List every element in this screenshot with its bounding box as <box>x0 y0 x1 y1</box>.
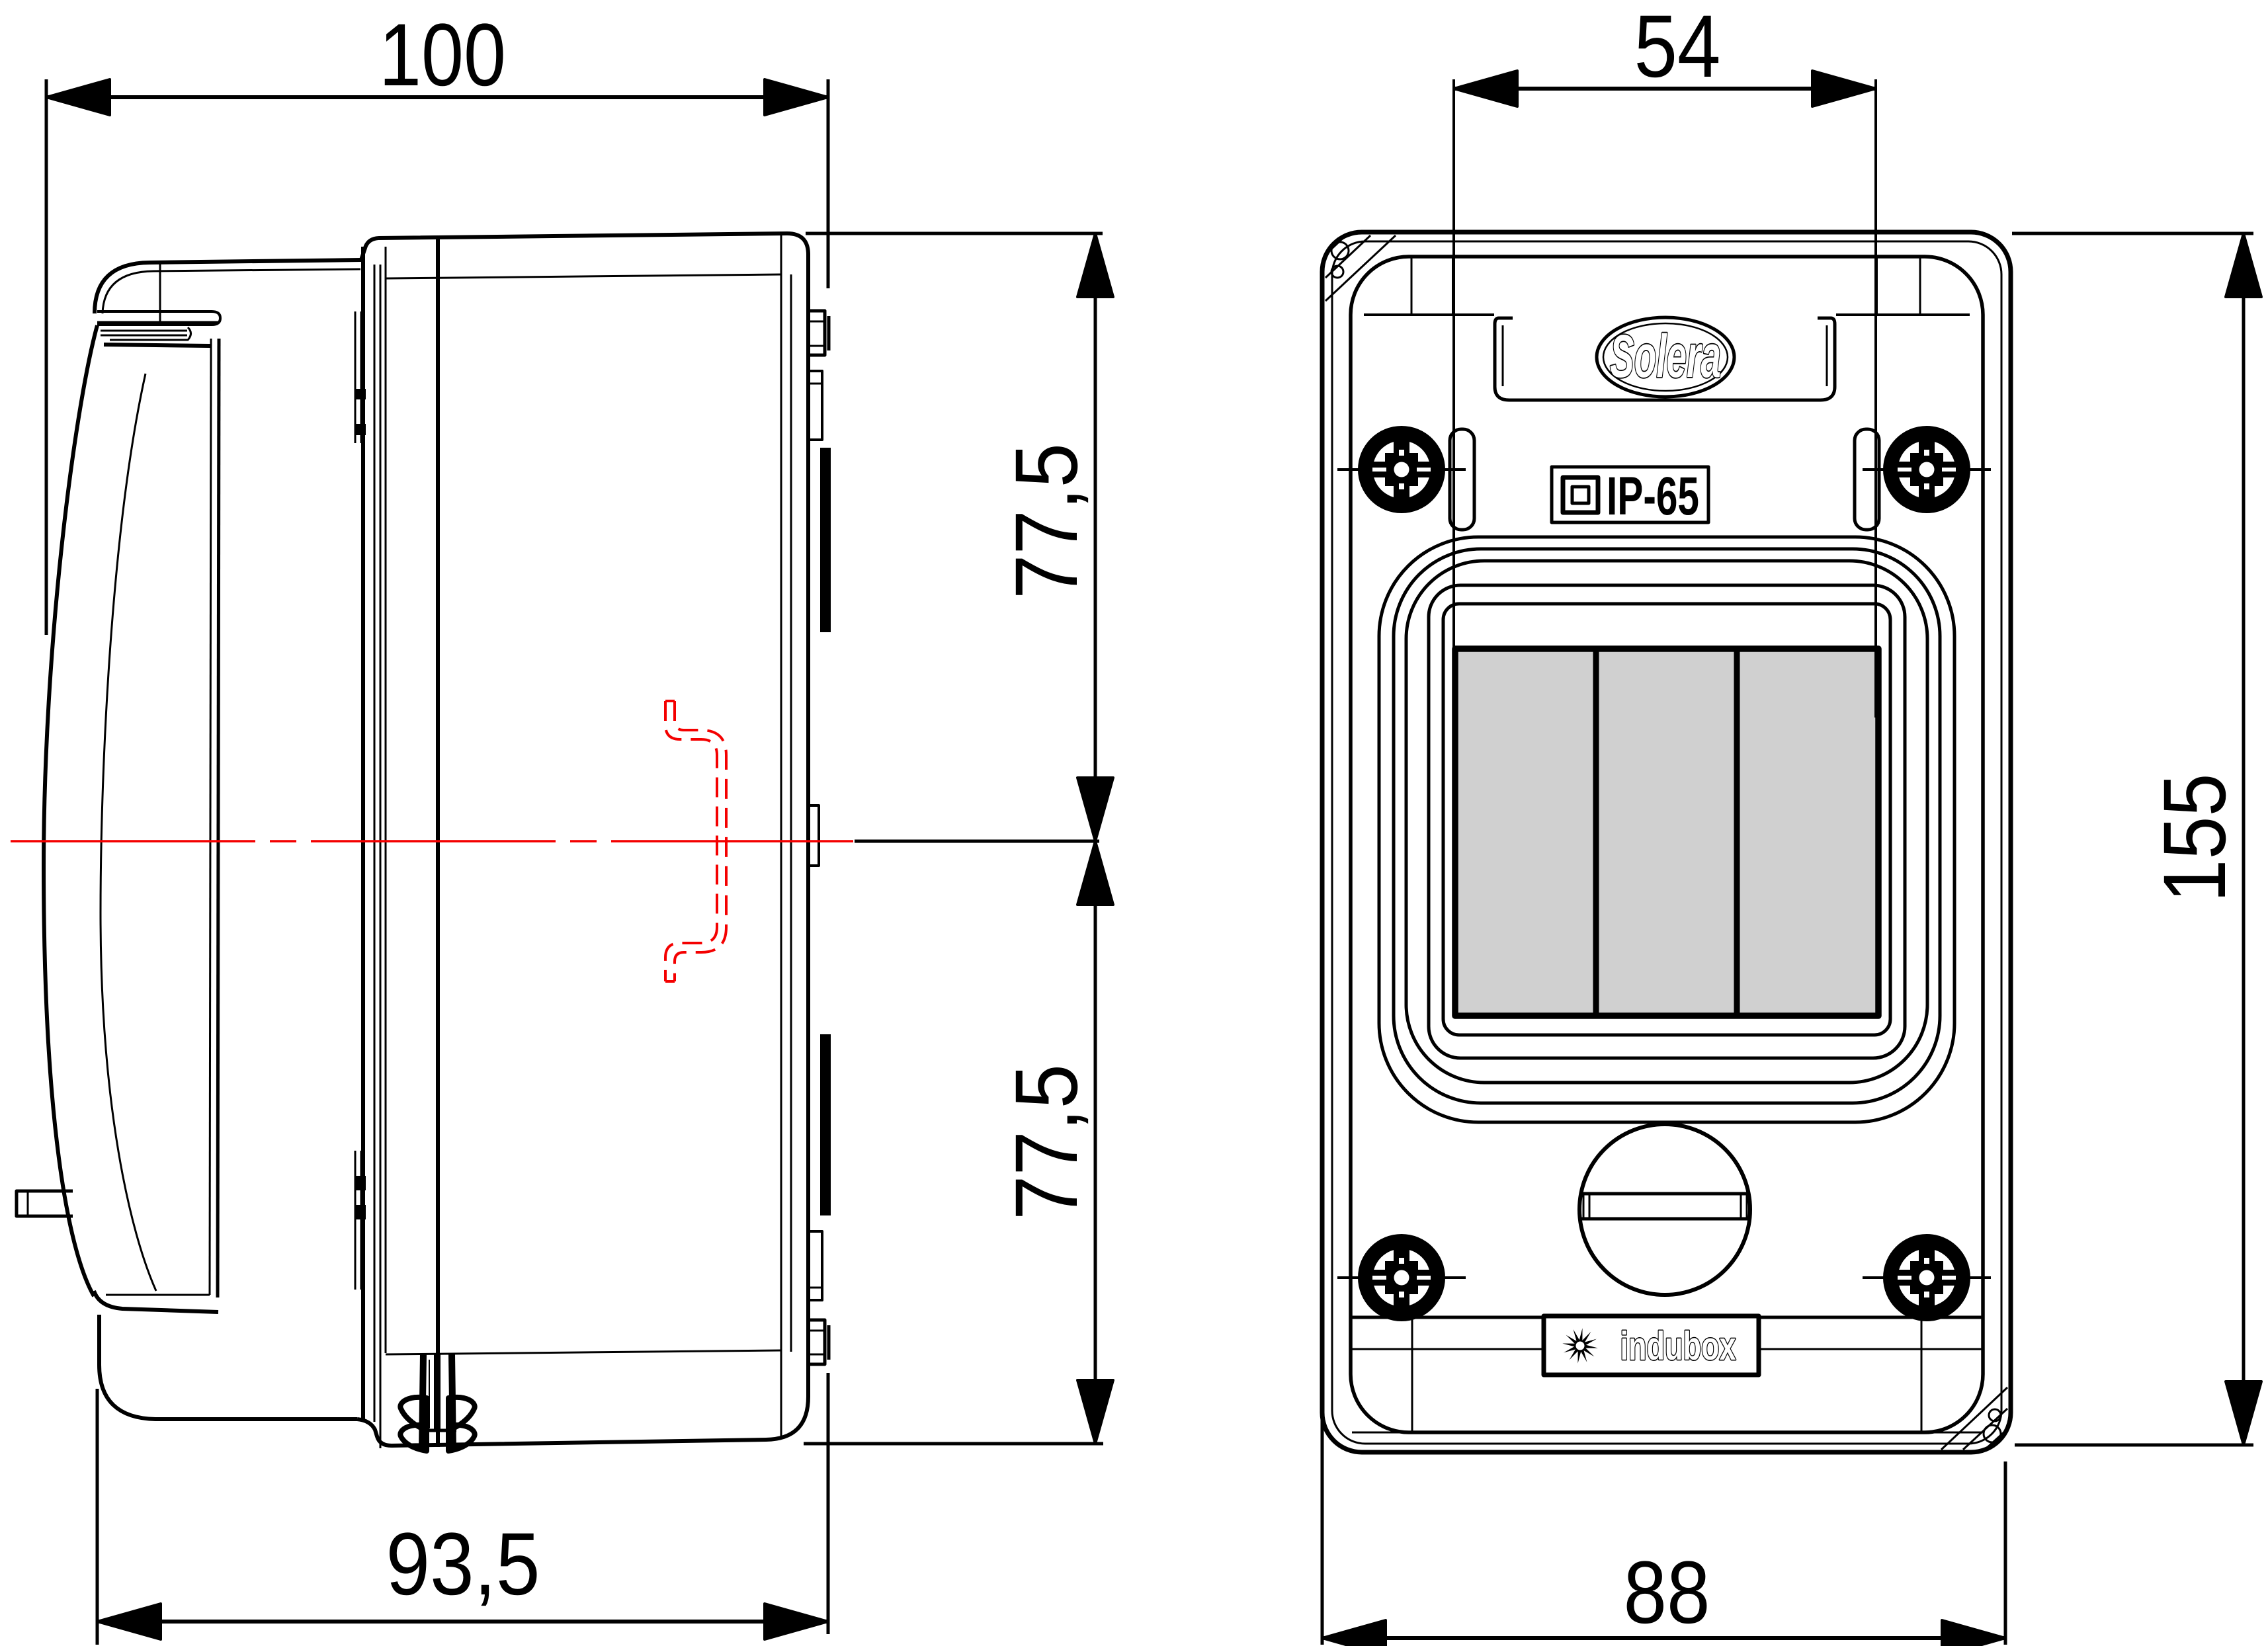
extension line 88 left <box>1321 1415 1324 1645</box>
DIN clip bar lower <box>820 1034 831 1215</box>
svg-text:77,5: 77,5 <box>997 443 1096 599</box>
back center tab <box>808 805 819 866</box>
lid panel ledge <box>1364 313 1494 316</box>
indubox label box <box>1544 1316 1759 1375</box>
dim line 93.5 <box>97 1620 828 1624</box>
anchor wing lower-left <box>400 1425 427 1451</box>
band seam right <box>1921 1317 1923 1432</box>
DIN rail profile (red dashed) <box>665 701 726 981</box>
front face vertical lines <box>361 247 365 1422</box>
band seam left <box>1411 1317 1413 1432</box>
latch pin (left, lower) <box>17 1191 73 1216</box>
lid corner tangent line <box>159 263 161 324</box>
extension line 93.5 right <box>827 1373 830 1634</box>
back bump top <box>808 311 825 355</box>
arrowhead 88 left <box>1322 1620 1386 1646</box>
dim line 77.5 bottom <box>1094 841 1097 1444</box>
back bracket upper <box>808 371 822 440</box>
arrowhead 54 left <box>1454 71 1517 106</box>
svg-text:88: 88 <box>1624 1543 1710 1642</box>
svg-text:155: 155 <box>2146 774 2244 903</box>
name plate recess <box>1495 318 1835 400</box>
lid bottom edge <box>1352 1432 1982 1434</box>
extension line 100 right <box>827 79 830 288</box>
svg-text:93,5: 93,5 <box>386 1515 540 1614</box>
arrowhead 93.5 left <box>97 1604 161 1639</box>
arrowhead 93.5 right <box>765 1604 828 1639</box>
Solera logo oval <box>1597 317 1734 397</box>
hinge barrel bottom <box>355 1151 357 1290</box>
corner detail top-left <box>1325 233 1396 301</box>
extension line bottom 77.5 <box>804 1442 1103 1446</box>
hinge knuckle lines <box>101 330 187 332</box>
screw top-right <box>1863 426 1991 513</box>
dim line 155 <box>2242 233 2246 1445</box>
extension line 155 top <box>2012 232 2253 235</box>
recess side walls <box>1452 258 1454 316</box>
centre line (red dash-dot) <box>11 840 853 843</box>
anchor wing upper-left <box>400 1397 427 1430</box>
lid seam top left/right <box>1411 258 1413 315</box>
arrowhead 77.5 top up <box>1077 233 1113 297</box>
indubox starburst <box>1562 1328 1598 1364</box>
lid top-left corner and top edge <box>95 260 361 313</box>
bezel ring 2 <box>1394 549 1940 1103</box>
bezel ring 3 <box>1406 561 1927 1083</box>
DIN clip bar upper <box>820 448 831 632</box>
interior bottom line <box>386 1350 781 1354</box>
svg-text:Solera: Solera <box>1610 323 1721 390</box>
extension line 93.5 left <box>96 1389 99 1645</box>
arrowhead 77.5 top down <box>1077 778 1113 841</box>
back wall thin lines <box>780 235 782 1438</box>
door top edge bar <box>104 345 210 346</box>
arrowhead 100 left <box>46 79 110 115</box>
arrowhead 54 right <box>1812 71 1876 106</box>
anchor wing lower-right <box>448 1425 475 1451</box>
arrowhead 155 down <box>2226 1381 2261 1445</box>
svg-text:indubox: indubox <box>1620 1324 1736 1368</box>
switch window frame <box>1455 649 1878 1016</box>
expansion anchor shafts <box>422 1354 453 1450</box>
extension line 100 left <box>45 79 48 635</box>
lid bottom band second line <box>1352 1348 1982 1350</box>
bezel ring 5 <box>1443 604 1890 1035</box>
round knockout <box>1579 1124 1750 1295</box>
slot left <box>1450 429 1474 530</box>
back bracket lower <box>808 1231 822 1300</box>
extension line 54 right <box>1874 79 1877 718</box>
svg-text:IP-65: IP-65 <box>1607 466 1699 526</box>
extension line 54 left <box>1452 79 1455 718</box>
screw top-left <box>1337 426 1466 513</box>
corner detail bottom-right <box>1941 1387 2007 1450</box>
interior top line <box>386 274 781 278</box>
door bottom edge <box>94 1291 218 1312</box>
arrowhead 88 right <box>1942 1620 2005 1646</box>
anchor wing upper-right <box>448 1397 475 1430</box>
back bump bottom <box>808 1320 825 1364</box>
svg-text:54: 54 <box>1634 0 1721 96</box>
bezel ring 1 <box>1379 537 1954 1122</box>
rocker divider 2 <box>1734 649 1740 1016</box>
dim line 100 <box>46 95 828 99</box>
arrowhead 100 right <box>765 79 828 115</box>
bezel ring 4 <box>1429 585 1905 1058</box>
hinge bar <box>97 311 220 325</box>
slot right <box>1855 429 1879 530</box>
body top edge, right corner, back edge, bottom <box>378 233 808 1446</box>
arrowhead 155 up <box>2226 233 2261 297</box>
IP-65 icon <box>1563 477 1598 513</box>
enclosure inner line <box>1332 241 2001 1444</box>
front wall heavy line <box>436 237 440 1447</box>
step up to body top <box>361 238 378 260</box>
door outer curved face <box>44 325 97 1296</box>
rocker divider 1 <box>1593 649 1599 1016</box>
dim line 77.5 top <box>1094 233 1097 841</box>
dim line 54 <box>1454 87 1876 91</box>
door inner face line <box>101 374 156 1291</box>
enclosure outer outline <box>1322 232 2011 1452</box>
switch rockers grey fill <box>1458 651 1876 1013</box>
IP-65 label box <box>1552 467 1708 522</box>
pointer line at centre <box>855 840 1099 843</box>
foot step <box>357 1419 392 1446</box>
extension line 88 right <box>2004 1461 2007 1645</box>
arrowhead 77.5 bottom down <box>1077 1380 1113 1444</box>
screw bottom-right <box>1863 1234 1991 1321</box>
extension line top 77.5 <box>806 232 1103 235</box>
door glazing edge lines <box>210 339 211 1295</box>
svg-text:77,5: 77,5 <box>997 1064 1096 1220</box>
dim line 88 <box>1322 1636 2005 1640</box>
svg-text:100: 100 <box>379 6 506 104</box>
lid outline <box>1351 257 1983 1432</box>
hinge barrel top <box>355 311 357 443</box>
body bottom edge left part, bottom-left corner, left edge <box>99 1315 357 1419</box>
knockout slot <box>1581 1194 1749 1219</box>
arrowhead 77.5 bottom up <box>1077 841 1113 905</box>
screw bottom-left <box>1337 1234 1466 1321</box>
extension line 155 bottom <box>2015 1444 2253 1447</box>
lid bottom band top line <box>1352 1316 1982 1319</box>
